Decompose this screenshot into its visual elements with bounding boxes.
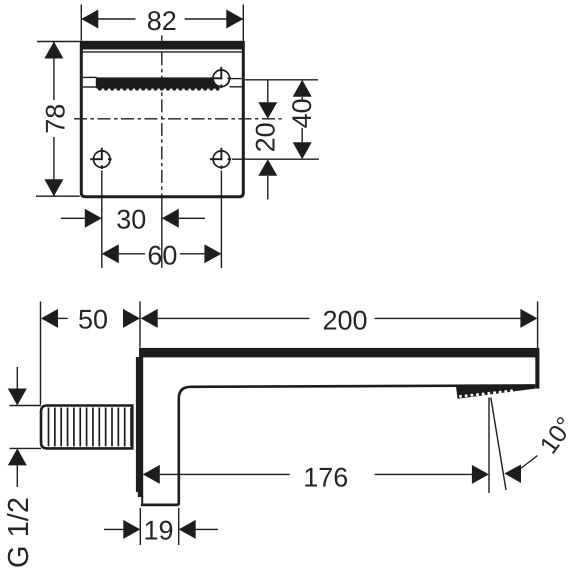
svg-text:60: 60 [147, 240, 177, 270]
svg-text:30: 30 [116, 204, 146, 234]
svg-text:10°: 10° [535, 412, 570, 459]
svg-text:200: 200 [322, 305, 367, 335]
svg-text:82: 82 [147, 6, 177, 36]
svg-text:19: 19 [143, 516, 173, 546]
svg-text:176: 176 [303, 462, 348, 492]
svg-text:40: 40 [287, 98, 317, 128]
svg-text:20: 20 [251, 122, 281, 152]
svg-text:G 1/2: G 1/2 [3, 497, 35, 568]
svg-text:50: 50 [78, 305, 108, 335]
svg-text:78: 78 [41, 104, 71, 134]
